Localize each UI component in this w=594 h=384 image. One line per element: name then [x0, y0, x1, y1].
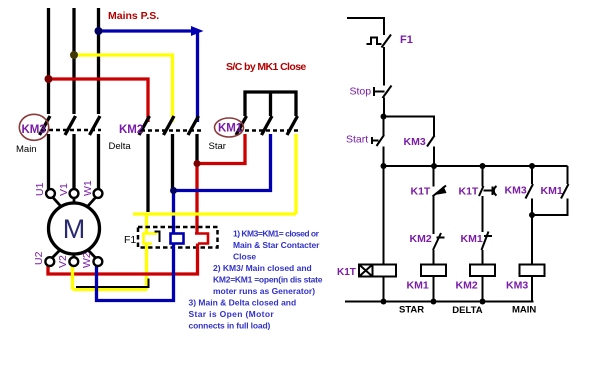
node bus 4: [529, 163, 535, 169]
node bus 2: [431, 163, 437, 169]
wire KM1 aux branch: [567, 166, 569, 184]
wire start lower: [383, 147, 385, 167]
wire yellow V2 overdraw: [71, 268, 74, 281]
wire L1 phase vertical: [47, 8, 50, 114]
wire KM3 aux lower: [433, 147, 435, 167]
star bridge bar: [244, 91, 298, 117]
F1 heater black hook: [155, 232, 160, 243]
svg-text:F1: F1: [124, 234, 136, 246]
svg-text:S/C by MK1 Close: S/C by MK1 Close: [226, 61, 306, 73]
svg-text:Star: Star: [209, 141, 226, 152]
lead W2 to motor: [88, 250, 96, 258]
terminal U2: [45, 257, 54, 266]
terminal V1: [70, 189, 79, 198]
lead U2 to motor: [52, 250, 60, 258]
wire K1T branch: [383, 166, 385, 265]
KM3 NO contact: [526, 184, 534, 199]
svg-text:KM2: KM2: [119, 124, 143, 136]
lead U1 to motor: [53, 197, 62, 207]
ellipse around KM1: [215, 118, 244, 137]
svg-text:MAIN: MAIN: [512, 305, 536, 316]
KM3 aux contact: [427, 136, 435, 147]
coil KM3: [520, 265, 545, 277]
terminal W1: [94, 189, 103, 198]
svg-text:U2: U2: [33, 251, 45, 265]
terminal U1: [46, 189, 55, 198]
wire KM3 pole3 lower: [97, 134, 100, 189]
svg-text:STAR: STAR: [399, 305, 424, 316]
coil KM1: [421, 265, 446, 277]
svg-text:F1: F1: [400, 34, 413, 46]
svg-text:Stop: Stop: [350, 86, 372, 98]
contactor KM3 pole 2 contact: [65, 116, 76, 135]
coil KM2: [470, 265, 495, 277]
terminal W2: [94, 257, 103, 266]
lead V1 to motor: [73, 198, 76, 203]
svg-text:KM2=KM1 =open(in dis state: KM2=KM1 =open(in dis state: [213, 275, 323, 285]
KM2 linkage dashed: [141, 129, 201, 132]
wire main coil to bus: [531, 276, 533, 302]
node delta bottom: [480, 299, 486, 305]
wire L3 phase vertical: [97, 8, 100, 114]
contactor KM3 pole 3 contact: [90, 116, 101, 135]
wire yellow black residue: [76, 279, 149, 289]
wire yellow KM1 pole3 to F1: [133, 134, 296, 234]
svg-text:Main & Star Contacter: Main & Star Contacter: [233, 240, 320, 250]
lead W1 to motor: [87, 197, 96, 207]
wire star coil to bus: [433, 276, 435, 302]
svg-text:1) KM3=KM1= closed or: 1) KM3=KM1= closed or: [233, 229, 320, 239]
svg-text:KM3: KM3: [404, 136, 426, 148]
wire delta coil to bus: [482, 276, 484, 302]
Start pushbutton NO: [372, 117, 384, 147]
svg-text:K1T: K1T: [459, 186, 479, 198]
wire yellow tap L2 to KM2 pole2: [74, 55, 173, 122]
wire blue F1 to W2: [97, 244, 174, 301]
wire delta mid: [482, 196, 484, 232]
node k1t bottom: [381, 299, 387, 305]
arrowhead blue: [191, 26, 204, 36]
svg-text:KM1: KM1: [541, 185, 563, 197]
svg-text:KM2: KM2: [410, 233, 432, 245]
svg-text:KM3: KM3: [506, 280, 528, 292]
contactor KM2 pole 1 contact: [139, 116, 150, 135]
wire blue KM1 pole2 to F1: [174, 134, 271, 234]
wire K1T coil to bus: [383, 277, 385, 302]
svg-text:KM1: KM1: [461, 233, 483, 245]
KM1 aux contact: [561, 184, 569, 199]
control bus wire: [384, 165, 568, 167]
wire star branch upper: [433, 166, 435, 187]
node bus 1: [381, 163, 387, 169]
node L2 tap junction: [70, 51, 78, 59]
KM2 NC contact: [433, 233, 445, 250]
node L1 tap junction: [45, 75, 53, 83]
coil K1T timer: [359, 265, 396, 277]
wire KM2 pole3 lower black: [195, 134, 198, 162]
svg-text:DELTA: DELTA: [452, 305, 482, 316]
node blue junction: [170, 187, 177, 194]
wire main branch upper: [531, 166, 533, 184]
wire KM2 pole2 lower black: [171, 134, 174, 189]
svg-text:W1: W1: [82, 180, 94, 196]
wire blue tap L3 to KM2 pole3: [99, 31, 198, 122]
svg-text:moter runs as Generator): moter runs as Generator): [213, 286, 315, 296]
contactor KM2 pole 3 contact: [188, 116, 199, 135]
svg-text:K1T: K1T: [337, 267, 356, 278]
wire red KM1 pole1 to F1: [197, 134, 245, 234]
node bus 3: [480, 163, 486, 169]
F1 heater red: [195, 234, 208, 244]
svg-text:3) Main & Delta closed and: 3) Main & Delta closed and: [189, 298, 297, 308]
wire KM3 pole2 lower: [72, 134, 75, 189]
wire Stop to junction: [383, 98, 385, 117]
motor M circle: [49, 203, 100, 254]
control bottom bus: [345, 301, 534, 303]
contactor KM1 pole 1 contact: [236, 116, 247, 135]
node main branch join: [529, 212, 535, 218]
F1 trip contact: [367, 38, 382, 45]
terminal V2: [69, 257, 78, 266]
svg-text:KM3: KM3: [505, 185, 527, 197]
svg-text:M: M: [63, 214, 86, 244]
K1T timed NC contact: [479, 186, 497, 196]
svg-text:Close: Close: [233, 252, 256, 262]
contactor KM1 pole 3 contact: [287, 116, 298, 135]
svg-text:KM3: KM3: [22, 124, 46, 136]
svg-text:K1T: K1T: [411, 186, 431, 198]
svg-text:Mains P.S.: Mains P.S.: [108, 10, 159, 22]
wire star mid: [433, 197, 435, 235]
wire yellow F1 to V2: [73, 244, 148, 290]
node start branch: [381, 114, 387, 120]
F1 heater yellow: [144, 234, 158, 244]
wire red F1 to U2: [48, 244, 198, 275]
wire delta branch upper: [482, 166, 484, 187]
KM3 linkage dashed: [42, 129, 101, 132]
node star bottom: [431, 299, 437, 305]
control top feed wire: [347, 18, 384, 35]
node L3 tap junction: [95, 27, 103, 35]
wire L2 phase vertical: [72, 8, 75, 114]
wire red tap L1 to KM2 pole1: [49, 79, 149, 122]
node red junction: [194, 160, 201, 167]
KM1 linkage dashed: [238, 129, 299, 132]
svg-text:U1: U1: [34, 182, 46, 196]
wire KM3 pole1 lower: [47, 134, 50, 189]
wire star to coil: [433, 250, 435, 265]
wire main mid: [531, 199, 533, 265]
contactor KM3 pole 1 contact: [40, 116, 51, 135]
svg-text:Delta: Delta: [109, 141, 132, 152]
lead V2 to motor: [72, 254, 75, 257]
wire branch to KM3 aux: [384, 117, 435, 137]
Stop pushbutton NC: [374, 86, 392, 99]
wire delta to coil: [482, 250, 484, 265]
svg-text:Start: Start: [346, 134, 368, 146]
ellipse around KM3: [19, 114, 48, 140]
K1T timed NO contact: [433, 186, 447, 197]
svg-text:W2: W2: [81, 252, 93, 268]
svg-text:KM2: KM2: [456, 280, 478, 292]
svg-text:2) KM3/ Main closed and: 2) KM3/ Main closed and: [213, 263, 312, 273]
svg-text:connects in full load): connects in full load): [189, 321, 271, 331]
svg-text:V1: V1: [58, 183, 70, 196]
svg-text:KM1: KM1: [218, 123, 243, 135]
contactor KM1 pole 2 contact: [262, 116, 273, 135]
svg-text:Main: Main: [16, 144, 37, 155]
overload F1 dashed box: [138, 227, 218, 248]
svg-text:Star is Open (Motor: Star is Open (Motor: [189, 309, 275, 319]
wire KM1 aux to main branch: [532, 199, 568, 216]
KM1 NC contact: [482, 232, 493, 251]
F1 heater blue: [171, 234, 184, 244]
wire KM2 pole1 lower black: [146, 134, 149, 212]
wire F1 to Stop: [383, 47, 385, 86]
svg-text:KM1: KM1: [407, 280, 429, 292]
svg-text:V2: V2: [57, 255, 69, 268]
contactor KM2 pole 2 contact: [164, 116, 175, 135]
